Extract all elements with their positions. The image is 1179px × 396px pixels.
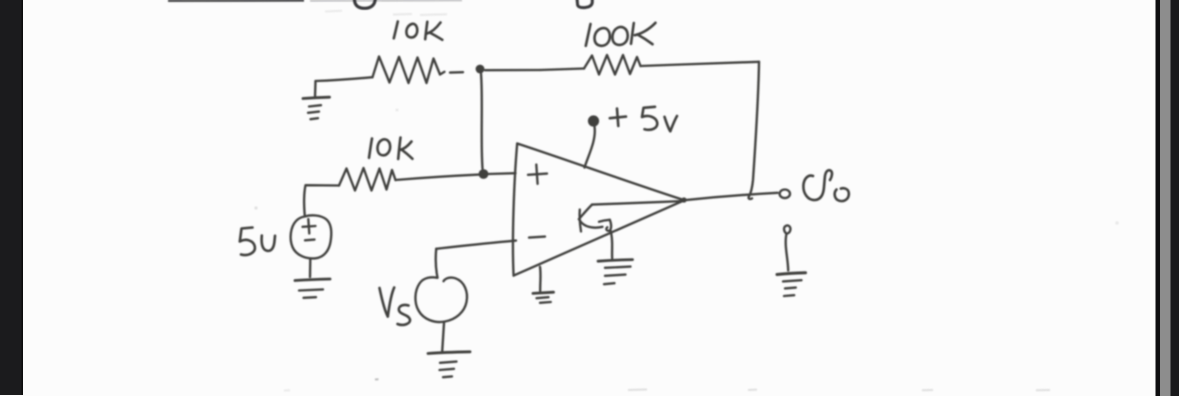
offset arrow K (scribble) — [579, 205, 611, 232]
ground (top-left) — [303, 81, 330, 119]
wire (top-left ground to R1) — [316, 77, 373, 81]
wire (Vs to - input) — [436, 241, 516, 249]
wire (apex line into triangle) — [592, 201, 684, 205]
resistor R1 10K — [373, 57, 464, 84]
wire (R1 to node A) — [485, 69, 540, 72]
ground (below K) — [598, 260, 633, 285]
source VS (Vs) — [415, 249, 467, 352]
resistor R3 10k (lower) — [339, 168, 479, 191]
ground (below Vs) — [428, 352, 470, 377]
wire (node A down to node B) — [481, 74, 483, 169]
label 10k (R3 value) — [369, 138, 413, 160]
wire (feedback vertical down to output) — [749, 62, 759, 199]
node B (junction dot at + input) — [479, 169, 489, 179]
wire (R3 left to V1 corner) — [304, 185, 339, 216]
wire (K to ground) — [611, 231, 613, 259]
wire (node B to + input) — [488, 172, 516, 175]
op-amp U1 (triangle) — [513, 144, 685, 276]
label 100K (R2 value) — [586, 23, 656, 46]
label 10K (R1 value) — [394, 22, 443, 40]
voltage source V1 (5V) — [291, 215, 332, 277]
wire (triangle bottom to left ground) — [539, 267, 542, 291]
label +5V (supply) — [610, 107, 677, 131]
ground (output terminal) — [777, 226, 806, 296]
output terminal (open circle) — [780, 190, 790, 199]
label Uo (output) — [803, 170, 848, 201]
resistor R2 100K — [540, 55, 641, 75]
wire (output from apex) — [681, 193, 777, 203]
power pin +5V (dot and stem) — [585, 116, 599, 167]
label Vs (source name) — [380, 288, 411, 325]
ground (below op-amp, left) — [533, 292, 554, 303]
label 5V (source value) — [240, 228, 275, 256]
wire (R2 to feedback corner) — [641, 62, 760, 66]
node A (junction dot, R1/R2/vertical) — [476, 65, 485, 74]
ground (below V1) — [295, 279, 330, 298]
